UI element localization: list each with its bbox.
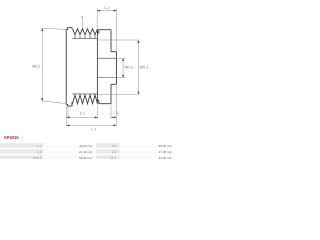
dim b1 line [66,116,97,118]
svg-text:L.1: L.1 [37,144,42,148]
wire top rib zigzag [73,29,98,35]
wire hub top [111,51,116,53]
dimension labels [32,6,148,131]
svg-text:L.2: L.2 [37,150,42,154]
arrow OD1 bottom [41,98,43,101]
table values column 1 [79,144,93,160]
arrow b1 left [66,116,69,118]
wire top groove line [73,37,98,39]
wire rim block top [97,30,111,33]
svg-text:21.40 mm: 21.40 mm [79,150,93,154]
svg-text:L.3: L.3 [112,150,117,154]
table row 2 [0,149,43,154]
table labels column 2 [111,144,116,160]
table labels column 1 [33,144,41,160]
wire rear face upper [110,30,112,52]
dim L1 line [66,124,116,126]
dim L1 right extension [115,85,117,126]
wire bore top [97,57,116,59]
dim OD3 vertical line [138,40,140,95]
arrow L2 left [97,10,100,12]
dim L3 left extension [110,105,112,119]
wire rear face lower [110,84,112,103]
arrowheads [41,10,139,127]
arrow OD3 top [138,40,140,43]
dim OD2 vertical line [122,58,124,77]
wire left edge [65,29,67,104]
leader a [81,19,83,29]
svg-text:61.90 mm: 61.90 mm [159,156,173,159]
wire rim block bottom [97,100,111,103]
arrow OD2 bottom [122,75,124,78]
arrow L2 right [114,10,117,12]
arrow L3 left [111,117,113,119]
dim b1 left extension [67,107,69,118]
wire hub bottom [111,83,116,85]
arrow OD3 bottom [138,92,140,95]
dim L2 left extension [96,9,98,29]
svg-text:49.50 mm: 49.50 mm [79,144,93,148]
wire rim mid vertical [96,29,98,104]
spec table [0,143,174,160]
svg-text:L.2: L.2 [104,6,109,10]
dim L3 line [111,116,116,118]
svg-text:56.90 mm: 56.90 mm [79,156,93,159]
dimension lines (thin) [42,9,138,126]
dim OD2 extensions [117,58,126,77]
wire hub right face [115,52,117,85]
dim OD1 bottom extension [42,101,66,104]
wire bottom groove line [73,93,98,95]
dim b1 right extension [97,105,99,119]
svg-text:b.1: b.1 [112,144,117,148]
wire top edge [66,28,72,30]
pulley body outline [66,28,116,106]
svg-text:b.1: b.1 [80,111,85,115]
table row 3 [0,155,43,160]
svg-text:17.90 mm: 17.90 mm [159,150,173,154]
svg-text:ØD.2: ØD.2 [125,66,134,70]
arrow OD1 top [41,28,43,31]
dim L2 right extension [116,9,118,52]
wire bottom rib zigzag [73,95,98,104]
svg-text:L.1: L.1 [91,127,96,131]
svg-text:L.3: L.3 [113,111,118,115]
svg-text:AP4010: AP4010 [4,135,20,140]
wire top groove verticals [75,35,95,39]
dim L1 left extension [65,107,67,126]
arrow L1 right [113,124,116,126]
svg-text:ØD.1: ØD.1 [32,64,41,68]
arrow b1 right [95,116,98,118]
dim L2 line [97,10,116,12]
dim OD3 bottom extension [98,94,139,96]
wire bore bottom [97,77,116,79]
arrow L3 right [114,117,116,119]
dim OD1 top extension [42,28,66,29]
wire bottom edge [66,102,72,106]
dim OD1 vertical line [41,29,43,101]
dim OD3 top extension [98,39,139,41]
arrow L1 left [66,124,69,126]
table row 1 [0,143,43,148]
wire bottom groove verticals [75,94,95,95]
svg-text:55.00 mm: 55.00 mm [159,144,173,148]
arrow OD2 top [122,58,124,61]
svg-text:Ø.2: Ø.2 [111,156,116,159]
svg-text:ØD.3: ØD.3 [140,66,149,70]
table values column 2 [159,144,173,160]
svg-text:Ø.D.1: Ø.D.1 [33,156,41,159]
